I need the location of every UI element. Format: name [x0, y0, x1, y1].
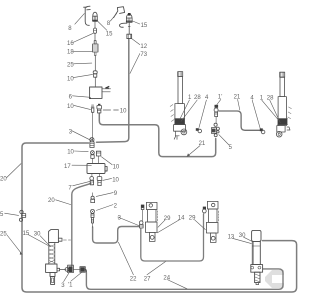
svg-text:21: 21	[199, 141, 206, 147]
svg-text:22: 22	[130, 277, 137, 283]
svg-text:10: 10	[113, 165, 120, 171]
leader for label 73	[130, 54, 140, 74]
fitting 7 (below box left)	[90, 174, 94, 185]
leader for label 3 (brake fitting)	[118, 217, 139, 226]
svg-text:20: 20	[0, 176, 7, 182]
svg-text:10: 10	[112, 177, 119, 183]
leader for label 24	[167, 280, 187, 289]
fitting 10 pair (above box 17)	[91, 151, 101, 164]
wire: pipe 21 upper between cylinders	[219, 111, 260, 130]
svg-text:1ʼ: 1ʼ	[218, 95, 223, 101]
svg-text:1: 1	[188, 95, 192, 101]
leader for label 28 (right cyl)	[270, 100, 280, 122]
leader for label 16	[73, 33, 93, 42]
T-fitting 5 (between cylinders)	[211, 123, 219, 136]
master cylinder 13/30	[251, 230, 263, 284]
leader for label 22	[118, 242, 133, 275]
svg-text:15: 15	[141, 23, 148, 29]
svg-text:29: 29	[164, 216, 171, 222]
brake assembly right (parts 29/14)	[206, 201, 218, 242]
leader for label 7	[73, 181, 90, 185]
svg-text:17: 17	[64, 164, 71, 170]
clamp fitting 5 on left hose	[19, 210, 25, 221]
leader for label 12	[132, 39, 140, 45]
svg-text:ʼ1: ʼ1	[68, 283, 73, 289]
svg-text:28: 28	[267, 95, 274, 101]
fitting 4 (left, loose)	[196, 128, 202, 133]
svg-text:16: 16	[67, 41, 74, 47]
svg-text:4: 4	[205, 95, 209, 101]
leader for label 4 (right cyl)	[252, 100, 260, 128]
fitting 10b (below box right)	[97, 174, 102, 186]
leader for label 13	[233, 238, 252, 243]
svg-text:3: 3	[69, 129, 73, 135]
valve fitting 3 (on line to tank)	[90, 138, 94, 148]
svg-text:10: 10	[67, 76, 74, 82]
leader for label 25 (far left, arrow)	[7, 235, 22, 254]
pump assembly 1/3	[57, 265, 86, 272]
leader for label 20 (far left)	[7, 164, 21, 178]
wire: steering tube 73 from connector 12 down then west to valve	[97, 39, 129, 142]
leader for label 8 (right)	[110, 14, 116, 21]
leader for label 10 (grommet)	[73, 74, 92, 77]
wire: U hose 27 between brake assemblies	[141, 214, 204, 261]
leader for label 10 (box top left)	[74, 150, 88, 153]
fitting 4 (right, at pipe end)	[260, 128, 265, 133]
svg-text:15: 15	[23, 231, 30, 237]
svg-text:4: 4	[250, 95, 254, 101]
svg-text:10: 10	[120, 109, 127, 115]
leader for label 15 (right)	[133, 21, 140, 24]
svg-text:5: 5	[229, 145, 233, 151]
leader for label 4 (left cyl)	[199, 100, 206, 128]
junction box 17	[87, 164, 107, 174]
fitting pair below box 6	[91, 104, 101, 141]
svg-text:29: 29	[189, 215, 196, 221]
leader for label 2	[96, 205, 113, 211]
grommet 10 (above box 6)	[93, 71, 97, 87]
connector 12	[127, 34, 132, 38]
leader for label 10 (box top right)	[101, 157, 112, 165]
leader for label 15 (left)	[98, 21, 107, 30]
hook clip below cylinder 15 right	[119, 23, 126, 27]
svg-text:10: 10	[67, 150, 74, 156]
svg-text:30: 30	[34, 231, 41, 237]
valve cylinder 15 (right)	[126, 13, 132, 34]
wire: line 20 from fitting 7 down to pump	[72, 183, 91, 265]
leader for label 8 (left)	[75, 14, 85, 25]
bolt fitting on left brake assembly	[139, 205, 144, 228]
svg-text:25: 25	[0, 231, 7, 237]
leader for label 10 (below box right)	[103, 178, 112, 180]
bolt fitting on right brake assembly	[202, 207, 206, 213]
leader for label 5 (T-fitting)	[219, 135, 229, 145]
leader for label 28 (left cyl)	[181, 100, 197, 121]
leader for label 14	[157, 220, 179, 233]
svg-text:6: 6	[69, 94, 73, 100]
svg-text:7: 7	[68, 185, 72, 191]
svg-text:13: 13	[228, 234, 235, 240]
fitting 9	[91, 193, 95, 203]
svg-text:24: 24	[163, 275, 170, 281]
dashed leader for label 10 (right of fittings)	[103, 109, 118, 111]
leader for label 1 (right cyl)	[262, 100, 279, 120]
leader for label 17	[72, 164, 91, 166]
leader for label 3 (valve)	[72, 131, 91, 140]
spool valve 18	[93, 41, 98, 71]
hydraulic cylinder right	[276, 72, 291, 137]
leader for label 29 (left)	[158, 220, 165, 227]
svg-text:30: 30	[239, 233, 246, 239]
svg-text:14: 14	[178, 215, 185, 221]
valve cylinder 15 (left)	[93, 12, 98, 28]
wire: pump outlet line 24 to master cylinder lower port	[86, 269, 283, 289]
svg-text:8: 8	[68, 26, 72, 32]
leader for label 1'	[217, 99, 221, 105]
svg-text:1: 1	[260, 95, 264, 101]
elbow fitting 1'	[214, 105, 218, 123]
fitting 2	[91, 209, 95, 227]
leader for label 20 (pump riser)	[56, 200, 71, 205]
svg-text:28: 28	[194, 95, 201, 101]
clamp bracket 8 (right)	[114, 7, 125, 18]
leader for label 29 (right)	[195, 220, 206, 230]
leader for label 1 (left cyl)	[180, 100, 190, 119]
leader for label 3 (pump)	[64, 273, 69, 282]
svg-text:18: 18	[67, 50, 74, 56]
svg-text:20: 20	[48, 198, 55, 204]
leader for label 21 (supply line, arrow)	[188, 146, 200, 156]
wire: supply line 21 from elbow fitting to T-fitting	[99, 113, 215, 157]
hydraulic cylinder left	[170, 72, 187, 140]
svg-text:5: 5	[0, 212, 4, 218]
hook bracket 8 (left)	[84, 6, 91, 25]
chain link 16	[94, 28, 97, 41]
wire: line 22 zigzag from valve outlet to brake fitting 3	[93, 227, 139, 244]
leader for label 9	[96, 193, 113, 197]
leader for label 21 (pipe corner)	[238, 99, 240, 110]
reservoir box 6	[89, 86, 110, 99]
svg-text:10: 10	[67, 104, 74, 110]
svg-text:12: 12	[140, 44, 147, 50]
leader for label 5 (left)	[5, 213, 19, 215]
svg-text:8: 8	[107, 21, 111, 27]
svg-text:27: 27	[144, 277, 151, 283]
svg-text:21: 21	[234, 95, 241, 101]
leader for label 18	[73, 50, 92, 52]
svg-text:25: 25	[67, 62, 74, 68]
leader for label 10 (lower left)	[74, 105, 91, 109]
brake assembly left (parts 29/14)	[145, 202, 157, 241]
leader for label 25	[73, 62, 91, 65]
reservoir tank 30	[46, 230, 71, 285]
leader for label 1 (pump)	[71, 272, 82, 281]
svg-text:15: 15	[106, 31, 113, 37]
leader for label 30 (master cyl)	[244, 237, 253, 241]
svg-text:2: 2	[114, 203, 118, 209]
svg-text:9: 9	[114, 191, 118, 197]
leader for label 27	[147, 262, 165, 275]
watermark logo	[265, 270, 284, 288]
leader for label 6	[72, 96, 89, 97]
svg-text:73: 73	[140, 52, 147, 58]
wire: return hose 25 left loop to master cylinder upper port	[22, 143, 297, 292]
svg-text:3: 3	[61, 283, 65, 289]
leaders for labels 15 and 30 (tank)	[28, 235, 50, 247]
